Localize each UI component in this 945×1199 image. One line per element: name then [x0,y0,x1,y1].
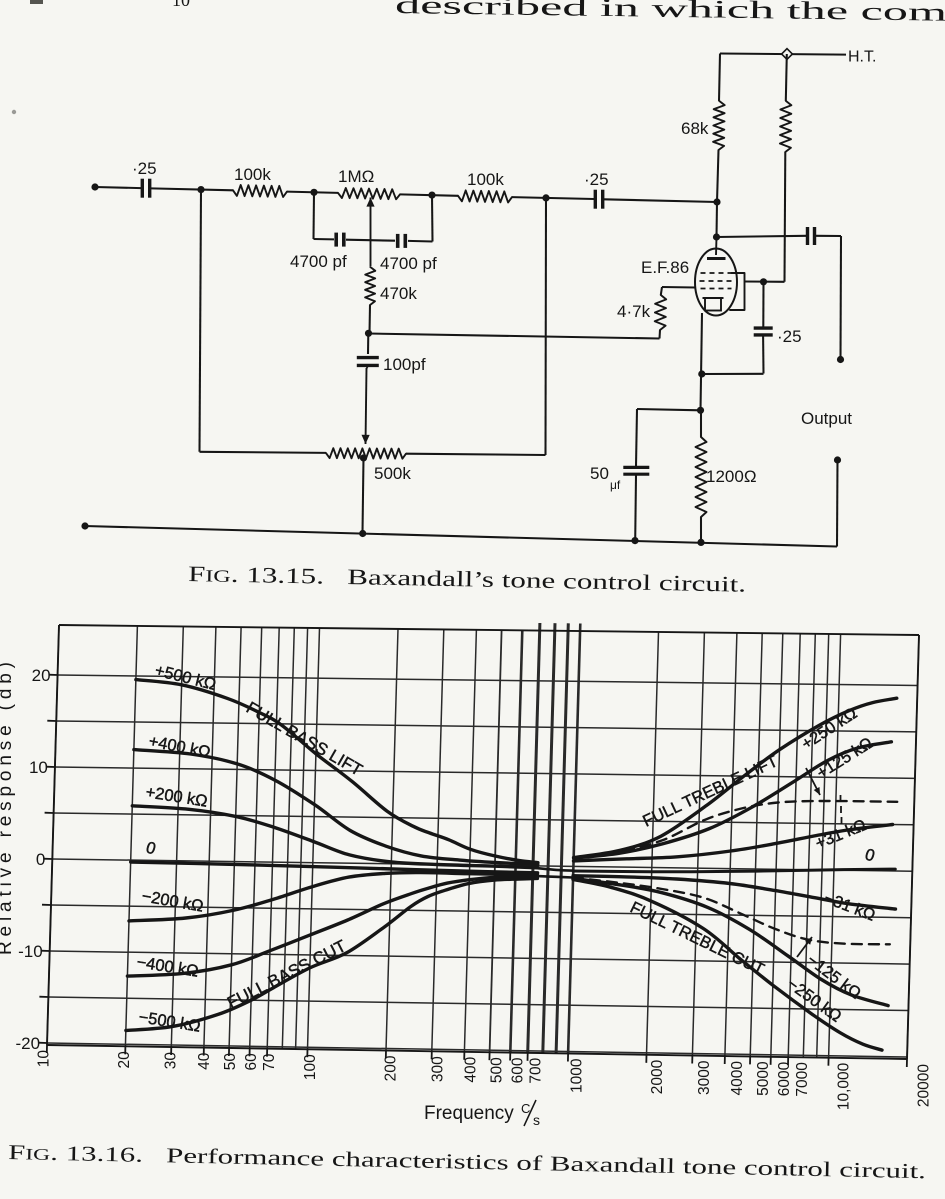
svg-text:100pf: 100pf [383,355,426,374]
svg-text:70: 70 [261,1053,278,1071]
svg-text:5000: 5000 [755,1061,772,1096]
svg-text:10,000: 10,000 [835,1062,852,1110]
svg-text:-20: -20 [16,1034,41,1053]
svg-text:50: 50 [590,464,609,483]
svg-text:400: 400 [463,1056,480,1082]
svg-text:-10: -10 [18,942,43,961]
svg-text:FIG. 13.16. Performance char: FIG. 13.16. Performance characteristics … [8,1140,926,1183]
svg-text:20: 20 [116,1051,133,1069]
svg-text:H.T.: H.T. [848,49,876,66]
svg-text:100k: 100k [234,165,271,184]
svg-text:FIG. 13.15. Baxandall’s tone: FIG. 13.15. Baxandall’s tone control cir… [188,561,746,597]
svg-text:40: 40 [196,1052,213,1070]
svg-text:60: 60 [243,1053,260,1071]
svg-text:−31 kΩ: −31 kΩ [822,889,878,925]
svg-text:2000: 2000 [649,1059,666,1094]
svg-text:−500 kΩ: −500 kΩ [137,1008,201,1036]
svg-text:·25: ·25 [132,159,157,178]
svg-text:Frequency: Frequency [424,1103,514,1124]
svg-text:20000: 20000 [916,1064,933,1107]
svg-text:0: 0 [36,850,45,869]
svg-text:0: 0 [144,839,158,859]
svg-text:100: 100 [302,1054,319,1080]
svg-text:1MΩ: 1MΩ [338,167,374,186]
svg-text:500: 500 [488,1057,505,1083]
svg-text:20: 20 [32,666,51,685]
svg-text:described in which the com: described in which the com [395,0,945,27]
svg-text:Relative response (db): Relative response (db) [0,662,16,955]
svg-text:500k: 500k [374,464,411,483]
svg-text:30: 30 [163,1052,180,1070]
svg-text:4700 pf: 4700 pf [380,254,437,273]
svg-text:μf: μf [610,478,621,492]
svg-text:4·7k: 4·7k [617,302,651,321]
svg-text:68k: 68k [681,119,709,138]
svg-text:200: 200 [382,1055,399,1081]
svg-text:s: s [533,1112,540,1128]
svg-text:4000: 4000 [729,1061,746,1096]
svg-text:1000: 1000 [569,1058,586,1093]
svg-text:300: 300 [429,1056,446,1082]
svg-text:470k: 470k [380,284,417,303]
svg-text:·25: ·25 [777,327,802,346]
svg-text:700: 700 [527,1057,544,1083]
svg-text:0: 0 [863,846,877,866]
svg-text:100k: 100k [467,170,504,189]
svg-text:10: 10 [29,758,48,777]
svg-text:10: 10 [172,0,190,10]
svg-text:6000: 6000 [776,1061,793,1096]
svg-text:Output: Output [801,409,852,428]
svg-text:4700 pf: 4700 pf [290,252,347,271]
svg-text:600: 600 [510,1057,527,1083]
svg-text:E.F.86: E.F.86 [641,258,689,277]
svg-text:·25: ·25 [584,170,609,189]
svg-text:1200Ω: 1200Ω [706,467,757,486]
svg-text:3000: 3000 [696,1060,713,1095]
svg-text:+500 kΩ: +500 kΩ [153,661,218,694]
svg-text:−200 kΩ: −200 kΩ [140,887,205,916]
svg-text:7000: 7000 [794,1062,811,1097]
svg-text:50: 50 [222,1053,239,1071]
